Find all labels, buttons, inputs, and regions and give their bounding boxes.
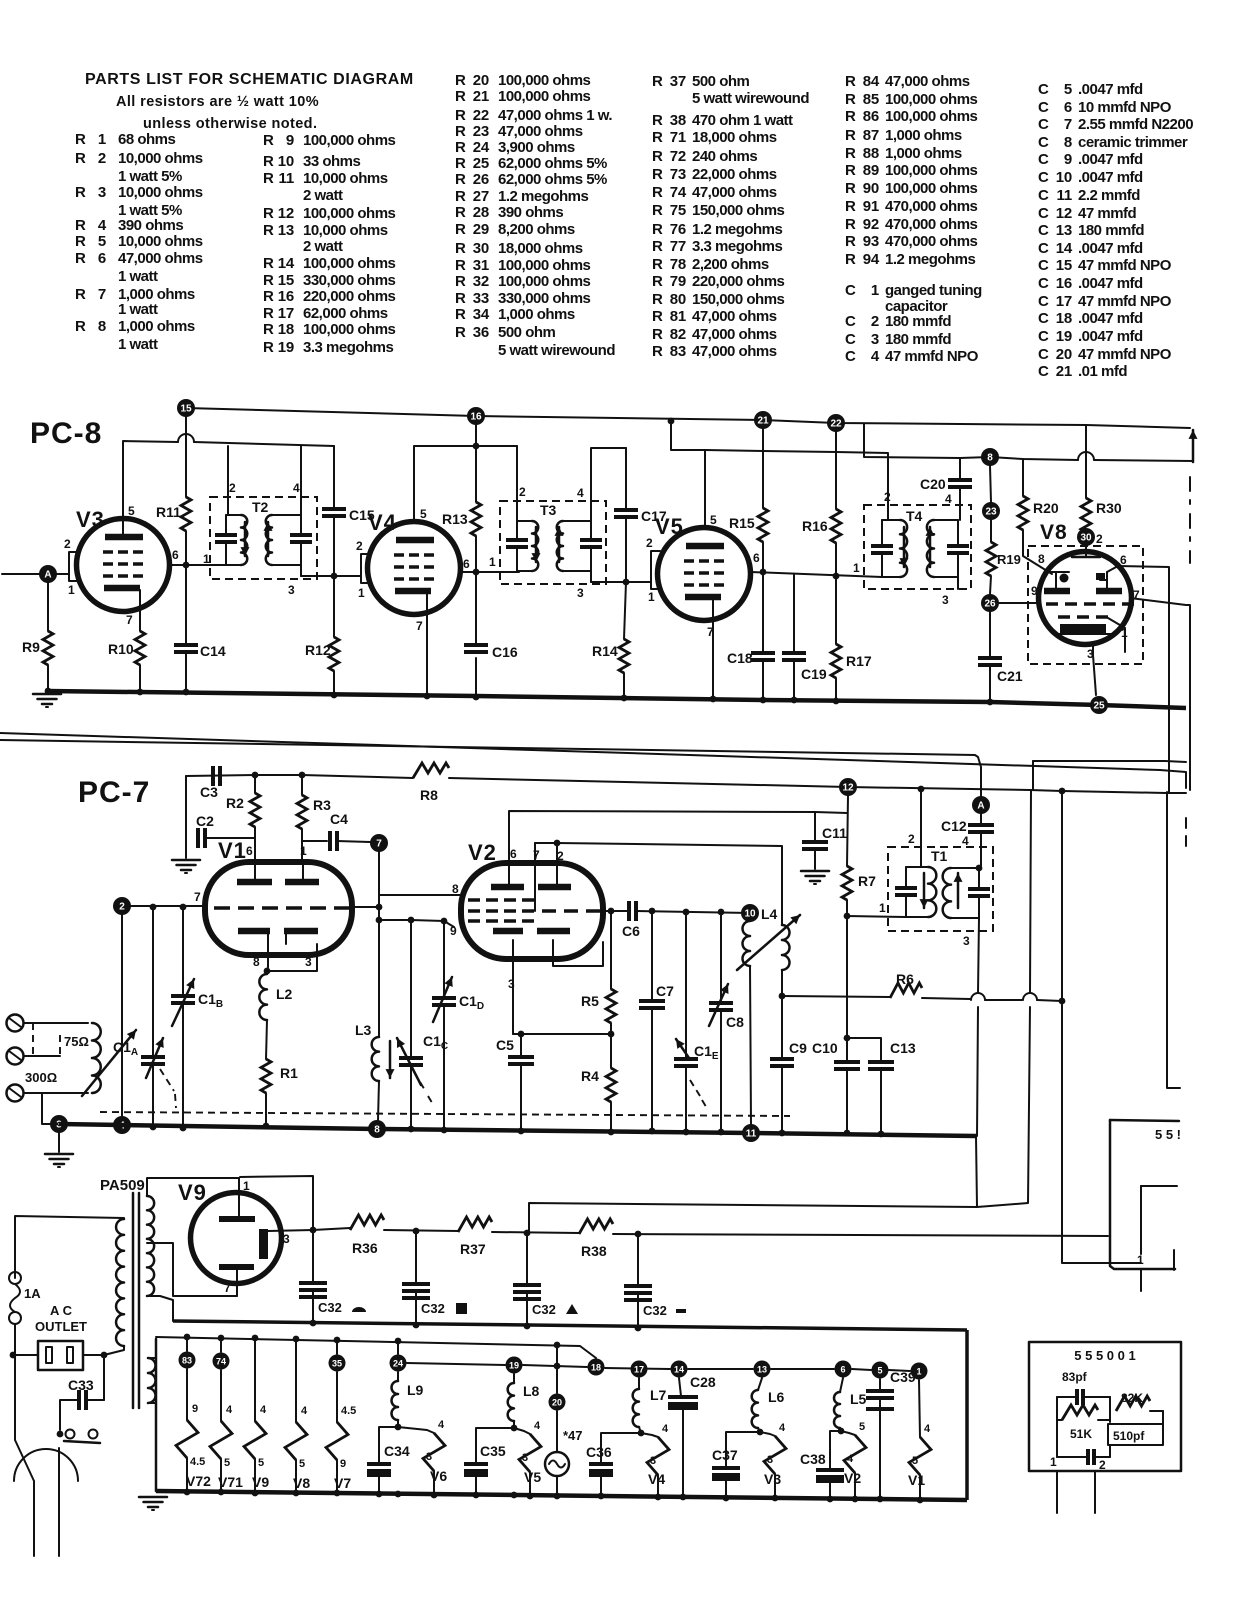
capacitor 83pf bbox=[1075, 1389, 1079, 1405]
wire V8 pin1 inner bbox=[1108, 618, 1125, 652]
heater V9h bbox=[244, 1421, 266, 1459]
wire L7 to junction bbox=[639, 1427, 641, 1433]
wire junction to C34 bbox=[379, 1427, 398, 1464]
V2 plate bars bbox=[491, 884, 524, 891]
svg-text:R7: R7 bbox=[858, 873, 876, 889]
svg-text:5: 5 bbox=[710, 513, 717, 527]
wire pin3 junction line to R5 bbox=[513, 1033, 611, 1035]
svg-text:24: 24 bbox=[393, 1359, 403, 1369]
resistor R20 bbox=[1018, 496, 1028, 530]
heater V6 bbox=[423, 1433, 445, 1471]
wire V71 to bus bbox=[220, 1459, 222, 1492]
wire R5 to R4 bbox=[610, 1023, 612, 1068]
svg-text:1: 1 bbox=[358, 586, 365, 600]
V5 cathode bar bbox=[685, 594, 721, 601]
svg-text:R8: R8 bbox=[420, 787, 438, 803]
junction R5 top bbox=[608, 908, 615, 915]
svg-text:R9: R9 bbox=[22, 639, 40, 655]
junction C32c bbox=[524, 1230, 531, 1237]
vertical harness right outer bbox=[1167, 792, 1180, 1088]
svg-text:PC-7: PC-7 bbox=[78, 776, 150, 809]
junction osc C1C bbox=[408, 917, 415, 924]
wire C15 junction down to R12 bbox=[333, 576, 335, 637]
heater V3h bbox=[764, 1436, 786, 1474]
svg-text:1: 1 bbox=[879, 901, 886, 915]
junction V3 out R11 bbox=[183, 562, 190, 569]
svg-text:OUTLET: OUTLET bbox=[35, 1319, 87, 1334]
V1 plate bars bbox=[237, 879, 272, 886]
svg-text:4: 4 bbox=[962, 834, 969, 848]
capacitor C5 with leads bbox=[520, 1034, 522, 1056]
wire R8 to node12 to right drop bbox=[449, 778, 1186, 793]
svg-text:2: 2 bbox=[646, 536, 653, 550]
svg-text:8: 8 bbox=[374, 1125, 380, 1136]
svg-text:C6: C6 bbox=[622, 923, 640, 939]
heater V72 bbox=[176, 1420, 198, 1458]
interlock half circle bbox=[14, 1449, 78, 1481]
svg-text:C18: C18 bbox=[727, 650, 753, 666]
V3 grid dashes bbox=[103, 552, 143, 576]
junction R8 line bbox=[1059, 788, 1066, 795]
wire node A to V3 grid with jog bbox=[56, 552, 78, 574]
wire C13 branch bbox=[847, 1038, 881, 1062]
heater V7 bbox=[326, 1422, 348, 1460]
inductor L7 bbox=[633, 1389, 639, 1427]
wire B+ line R36-R38 bbox=[313, 1228, 350, 1230]
wire 83 to V72 bbox=[186, 1369, 188, 1420]
node 18 bbox=[588, 1359, 605, 1376]
svg-text:5: 5 bbox=[299, 1458, 305, 1470]
heater V4h bbox=[647, 1437, 669, 1475]
svg-text:82K: 82K bbox=[1121, 1391, 1143, 1405]
T1 secondary ties bbox=[951, 867, 979, 869]
wire T3 pin4 riser to C17 bbox=[591, 448, 626, 521]
svg-text:7: 7 bbox=[126, 613, 133, 627]
svg-text:R13: R13 bbox=[442, 511, 468, 527]
svg-text:9: 9 bbox=[450, 924, 457, 938]
wire T3 primary feed bbox=[516, 446, 518, 521]
junction V5 out R16 line bbox=[833, 573, 840, 580]
resistor R12 with lead bbox=[329, 637, 339, 671]
junction bus C1A bbox=[150, 1124, 157, 1131]
svg-text:C32: C32 bbox=[318, 1300, 342, 1315]
svg-text:4: 4 bbox=[438, 1419, 445, 1431]
capacitor C1C with leads bbox=[410, 920, 412, 1057]
capacitor C12 bbox=[980, 814, 982, 824]
wire 5 to C39 bbox=[879, 1379, 881, 1390]
capacitor C6 bbox=[627, 901, 631, 921]
trimmer arrow C1C bbox=[397, 1038, 421, 1085]
antenna screw terminal 1 bbox=[7, 1015, 24, 1032]
svg-text:T4: T4 bbox=[906, 508, 923, 524]
capacitor C38 with leads bbox=[816, 1468, 844, 1472]
heater box right edge bbox=[965, 1330, 969, 1500]
junction B- C32a bbox=[310, 1320, 317, 1327]
junction htr 74 bbox=[218, 1335, 225, 1342]
resistor R10 with leads bbox=[135, 631, 145, 665]
wire junction to C37 bbox=[726, 1432, 760, 1467]
svg-text:R30: R30 bbox=[1096, 500, 1122, 516]
svg-text:V6: V6 bbox=[430, 1468, 447, 1484]
inductor L9 bbox=[392, 1381, 399, 1420]
svg-text:L2: L2 bbox=[276, 986, 293, 1002]
wire to V2 pin8 bbox=[379, 894, 461, 896]
right page connector arrow bbox=[1192, 430, 1195, 462]
wire L4 primary to node11 bbox=[750, 966, 751, 1124]
junction C8 bbox=[718, 909, 725, 916]
V3 cathode bar bbox=[104, 585, 140, 592]
svg-text:1: 1 bbox=[648, 590, 655, 604]
wire V5 out to T4 pin1 bbox=[751, 572, 882, 577]
wire V4 plate riser and loop to T3 bbox=[414, 446, 517, 520]
T1 secondary coil bbox=[943, 868, 951, 918]
capacitor C18 bbox=[751, 651, 775, 655]
T3 primary coil bbox=[532, 521, 538, 571]
svg-text:83: 83 bbox=[182, 1356, 192, 1366]
junction bus C7 bbox=[649, 1128, 656, 1135]
wire junction to V3 heater bbox=[760, 1432, 775, 1436]
junction bus R14 bbox=[621, 695, 628, 702]
V3 plate bar bbox=[105, 534, 143, 541]
svg-text:4: 4 bbox=[260, 1404, 267, 1416]
svg-text:17: 17 bbox=[634, 1365, 644, 1375]
resistor R14 with lead bbox=[619, 639, 629, 673]
wire R20 to V8 pin8 bbox=[1023, 530, 1052, 574]
wire V4 grid2 out to T3 bbox=[461, 571, 519, 573]
wire V5h to bus bbox=[529, 1472, 531, 1496]
junction bus V4 cathode bbox=[424, 693, 431, 700]
T3 primary cap bbox=[516, 521, 518, 538]
wire V1 pin2 out bbox=[352, 906, 379, 908]
svg-text:30: 30 bbox=[1080, 533, 1092, 544]
wire 83pf left lead bbox=[1057, 1396, 1077, 1398]
capacitor C16 bbox=[464, 643, 488, 647]
dash-dot harness stub bbox=[1185, 818, 1187, 846]
wire V2 out pin grid right bbox=[603, 910, 628, 912]
capacitor C14 bbox=[174, 643, 198, 647]
svg-text:4: 4 bbox=[534, 1420, 541, 1432]
V8 right diode bbox=[1096, 573, 1105, 580]
wire R20 feed bbox=[1022, 459, 1024, 496]
capacitor C32b with leads bbox=[415, 1231, 417, 1283]
node 83 bbox=[179, 1352, 196, 1369]
wire V8 pin6 out bbox=[1118, 566, 1169, 792]
wire 83pf right lead bbox=[1083, 1396, 1110, 1398]
svg-text:R38: R38 bbox=[581, 1243, 607, 1259]
T4 secondary arrow bbox=[929, 527, 932, 567]
box1 partial top bbox=[1110, 1120, 1179, 1121]
svg-text:V3: V3 bbox=[764, 1471, 781, 1487]
wire B+ top rail nodes 15-22 to right connector bbox=[186, 408, 1190, 428]
wire C2 to R2 junction bbox=[205, 837, 255, 839]
capacitor C13 with leads bbox=[868, 1060, 894, 1064]
svg-text:2: 2 bbox=[884, 490, 891, 504]
wire V9 bottom to pin7 bbox=[236, 1270, 238, 1296]
resistor R2 with leads bbox=[254, 775, 256, 793]
svg-text:1: 1 bbox=[916, 1367, 921, 1377]
long wire to node A bbox=[0, 740, 981, 797]
svg-text:8: 8 bbox=[987, 453, 993, 464]
svg-text:3: 3 bbox=[305, 955, 312, 969]
junction L2 top bbox=[264, 968, 271, 975]
node 5 bbox=[872, 1362, 889, 1379]
ground symbol node3 bbox=[45, 1153, 73, 1156]
svg-text:T2: T2 bbox=[252, 499, 269, 515]
svg-text:V2: V2 bbox=[844, 1470, 861, 1486]
dashed 75ohm bracket bbox=[33, 1023, 60, 1056]
svg-text:A: A bbox=[977, 801, 984, 812]
wire L4 sec to R6 line bbox=[781, 970, 783, 996]
wire HV top to V9 pin1 bbox=[147, 1178, 239, 1216]
wire 14 to C28 bbox=[679, 1378, 681, 1396]
svg-text:R6: R6 bbox=[896, 971, 914, 987]
svg-text:6: 6 bbox=[463, 557, 470, 571]
svg-text:V8: V8 bbox=[1040, 521, 1068, 544]
capacitor C20 bbox=[948, 478, 972, 482]
junction V6 column bbox=[395, 1424, 402, 1431]
svg-text:4.5: 4.5 bbox=[341, 1405, 356, 1417]
svg-text:5: 5 bbox=[128, 504, 135, 518]
capacitor C17 on riser bbox=[625, 448, 627, 508]
wire node12 drop to R7 bbox=[847, 796, 848, 866]
svg-text:R20: R20 bbox=[1033, 500, 1059, 516]
resistor R1 bbox=[261, 1059, 271, 1093]
tube V9 envelope bbox=[191, 1193, 282, 1284]
svg-text:7: 7 bbox=[224, 1281, 231, 1295]
wire AC neutral down bbox=[15, 1355, 34, 1481]
arrow L3 core bbox=[389, 1041, 392, 1078]
svg-text:18: 18 bbox=[591, 1363, 601, 1373]
wire T3 pin3 drop bbox=[590, 571, 592, 582]
wire ant terminal2 bbox=[24, 1055, 60, 1057]
junction AC outlet left bbox=[10, 1352, 17, 1359]
wire L2 to R1 bbox=[266, 1020, 267, 1059]
junction C32b bbox=[413, 1228, 420, 1235]
svg-text:V1: V1 bbox=[908, 1472, 925, 1488]
wire 19-18 link bbox=[523, 1365, 587, 1367]
wire C20 to T4 bbox=[959, 487, 961, 520]
balun coil bbox=[92, 1023, 101, 1093]
wire lamp column bbox=[556, 1345, 558, 1393]
svg-text:C11: C11 bbox=[822, 825, 847, 841]
svg-text:C32: C32 bbox=[421, 1301, 445, 1316]
junction htr V8 bbox=[293, 1336, 300, 1343]
resistor R9 with leads bbox=[47, 583, 49, 631]
resistor R37 horizontal bbox=[458, 1217, 492, 1232]
V2 grid dashes upper bbox=[468, 900, 600, 921]
svg-text:C36: C36 bbox=[586, 1444, 612, 1460]
svg-text:R3: R3 bbox=[313, 797, 331, 813]
svg-text:V5: V5 bbox=[524, 1469, 541, 1485]
junction plate loop R13 bbox=[473, 443, 480, 450]
svg-text:75Ω: 75Ω bbox=[64, 1034, 89, 1049]
T1 primary arrow bbox=[923, 873, 926, 908]
inductor L4 secondary bbox=[782, 925, 790, 970]
resistor R38 horizontal bbox=[579, 1219, 613, 1234]
svg-text:3: 3 bbox=[650, 1455, 656, 1467]
svg-text:5 5 !: 5 5 ! bbox=[1155, 1127, 1181, 1142]
svg-text:C8: C8 bbox=[726, 1014, 744, 1030]
wire node16 drop to R13 bbox=[475, 424, 477, 502]
wire V9 plate top link bbox=[240, 1176, 313, 1230]
junction bus R1 bbox=[263, 1123, 270, 1130]
wire V8 pin7 out bbox=[1130, 598, 1190, 790]
junction bus R17 bbox=[833, 698, 840, 705]
arrow L4 tuning bbox=[737, 915, 800, 970]
node 30 bbox=[1077, 528, 1095, 546]
svg-text:V4: V4 bbox=[648, 1471, 665, 1487]
trimmer arrow C1A bbox=[146, 1038, 163, 1078]
balun arrow bbox=[82, 1030, 136, 1096]
junction bus C16 bbox=[473, 694, 480, 701]
trimmer arrow C1E bbox=[676, 1039, 689, 1058]
resistor R7 bbox=[842, 866, 852, 900]
hop over R30 bbox=[1078, 452, 1094, 460]
wire R19 to node26 bbox=[990, 576, 991, 594]
svg-text:13: 13 bbox=[757, 1365, 767, 1375]
svg-text:L9: L9 bbox=[407, 1382, 424, 1398]
junction bus C19 bbox=[791, 697, 798, 704]
hop over R11 riser bbox=[178, 434, 194, 442]
svg-text:PA509: PA509 bbox=[100, 1177, 145, 1194]
svg-text:2: 2 bbox=[119, 902, 125, 913]
wire node22 drop to R16 bbox=[835, 432, 837, 509]
junction C32d bbox=[635, 1231, 642, 1238]
wire C17 junction to R14 bbox=[624, 582, 626, 639]
wire box2 pin leads bbox=[1056, 1471, 1058, 1513]
wire node26 to V8 pin9 bbox=[999, 602, 1040, 604]
svg-text:C9: C9 bbox=[789, 1040, 807, 1056]
box2 mid rail bbox=[1109, 1397, 1111, 1422]
T3 primary ties bbox=[517, 520, 532, 522]
wire htr col 35 bbox=[336, 1340, 338, 1354]
svg-text:V1: V1 bbox=[218, 838, 247, 863]
svg-text:4: 4 bbox=[924, 1423, 931, 1435]
svg-text:C28: C28 bbox=[690, 1374, 716, 1390]
T3 secondary ties bbox=[563, 520, 591, 522]
capacitor C21 bbox=[978, 656, 1002, 660]
svg-text:4: 4 bbox=[847, 1453, 854, 1465]
capacitor C1A with leads bbox=[152, 907, 154, 1056]
tube V1 envelope bbox=[205, 862, 352, 955]
junction R5 line bbox=[608, 1031, 615, 1038]
svg-text:V4: V4 bbox=[368, 510, 397, 535]
wire down to C33 bbox=[103, 1355, 105, 1400]
junction V5 out R15 line bbox=[760, 569, 767, 576]
svg-text:V3: V3 bbox=[76, 507, 105, 532]
capacitor C15 on riser bbox=[333, 446, 335, 508]
junction lamp line bbox=[554, 1363, 561, 1370]
wire R4 to bus bbox=[610, 1102, 612, 1132]
wire to AC outlet bbox=[15, 1354, 38, 1356]
svg-text:1: 1 bbox=[68, 583, 75, 597]
V4 cathode bar bbox=[395, 588, 431, 595]
wire T4 sec top riser to C20 bbox=[959, 458, 961, 479]
junction C5 top bbox=[518, 1031, 525, 1038]
wire 74 to V71 bbox=[220, 1370, 222, 1421]
T3 secondary cap bbox=[590, 521, 592, 538]
node-row line 13-6 bbox=[771, 1368, 834, 1370]
svg-text:A C: A C bbox=[50, 1303, 73, 1318]
junction bus R4 bbox=[608, 1129, 615, 1136]
junction R7 T1 pin1 bbox=[844, 913, 851, 920]
T3 secondary coil bbox=[557, 521, 563, 571]
node 3 bbox=[50, 1115, 68, 1133]
node 23 bbox=[982, 502, 1000, 520]
svg-text:C1D: C1D bbox=[459, 993, 484, 1012]
ground symbol heater bus bbox=[139, 1496, 167, 1499]
svg-text:7: 7 bbox=[707, 625, 714, 639]
wire ant terminal3 bbox=[24, 1092, 88, 1094]
wire V8 pin3 drop to node25 bbox=[1093, 645, 1096, 695]
svg-text:5: 5 bbox=[224, 1457, 230, 1469]
svg-text:C3: C3 bbox=[200, 784, 218, 800]
svg-text:3: 3 bbox=[767, 1454, 773, 1466]
junction bus C8 bbox=[718, 1129, 725, 1136]
svg-text:9: 9 bbox=[340, 1458, 346, 1470]
svg-text:C10: C10 bbox=[812, 1040, 838, 1056]
svg-text:C38: C38 bbox=[800, 1451, 826, 1467]
wire 35 to V7 bbox=[336, 1372, 338, 1422]
resistor 82K horizontal bbox=[1116, 1396, 1150, 1411]
wire R30 feed bbox=[1085, 425, 1087, 498]
svg-text:300Ω: 300Ω bbox=[25, 1070, 57, 1085]
wire node7 drop bbox=[378, 852, 380, 920]
wire V8h to bus bbox=[295, 1460, 297, 1493]
V4 plate bar bbox=[396, 537, 434, 544]
capacitor C1D with leads bbox=[443, 921, 445, 997]
wire heater winding stubs bbox=[148, 1357, 156, 1359]
svg-text:V9: V9 bbox=[178, 1180, 207, 1205]
inductor L8 bbox=[508, 1383, 514, 1421]
dashed gang line PC-7 bbox=[100, 1112, 790, 1116]
svg-text:2: 2 bbox=[1099, 1458, 1106, 1472]
svg-text:6: 6 bbox=[840, 1365, 845, 1375]
svg-text:1A: 1A bbox=[24, 1286, 41, 1301]
node 11 bbox=[742, 1124, 760, 1142]
svg-text:C2: C2 bbox=[196, 813, 214, 829]
tube V2 envelope bbox=[461, 863, 603, 959]
svg-text:1: 1 bbox=[300, 844, 307, 858]
svg-text:T1: T1 bbox=[931, 848, 948, 864]
capacitor C28 with leads bbox=[668, 1395, 698, 1399]
T1 primary cap bbox=[905, 867, 907, 886]
svg-text:6: 6 bbox=[246, 844, 253, 858]
wire junction to C35 bbox=[476, 1428, 514, 1464]
svg-text:L6: L6 bbox=[768, 1389, 785, 1405]
wire V4 pin1 stub bbox=[361, 576, 370, 583]
wire V4h to bus bbox=[657, 1475, 659, 1497]
wire C4 to node7 bbox=[337, 841, 370, 842]
svg-text:22: 22 bbox=[830, 419, 842, 430]
svg-text:14: 14 bbox=[674, 1365, 684, 1375]
V5 plate bar bbox=[686, 543, 724, 550]
wire AC hot top bbox=[15, 1216, 124, 1278]
resistor R11 bbox=[181, 497, 191, 531]
junction T1 sec top bbox=[976, 865, 983, 872]
wire L3 branch bbox=[378, 920, 380, 1037]
T1 secondary cap bbox=[978, 868, 980, 887]
heater inner top line bbox=[156, 1337, 596, 1358]
svg-text:C16: C16 bbox=[492, 644, 518, 660]
junction bus C14 bbox=[183, 689, 190, 696]
svg-text:C21: C21 bbox=[997, 668, 1023, 684]
wire T3/C17 to V5 grid bbox=[591, 581, 651, 583]
capacitor C2 bbox=[196, 828, 200, 848]
junction heater bus dots bbox=[184, 1489, 191, 1496]
junction grid line C1A bbox=[150, 904, 157, 911]
V8 top cap lead bbox=[1085, 552, 1087, 557]
